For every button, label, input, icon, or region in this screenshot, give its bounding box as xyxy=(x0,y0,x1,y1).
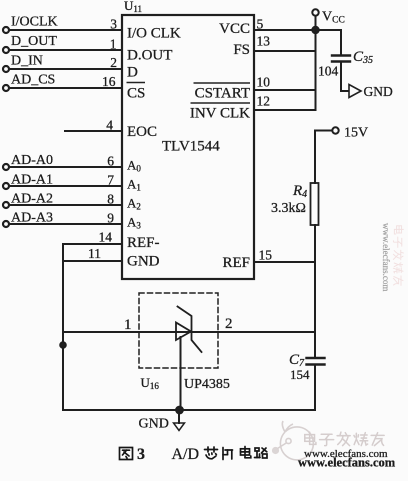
wire zener anode to ground rail xyxy=(180,337,182,410)
svg-text:EOC: EOC xyxy=(127,124,157,140)
capacitor C7 xyxy=(307,358,325,365)
svg-text:GND: GND xyxy=(127,254,160,270)
node 15V terminal xyxy=(332,127,338,133)
wire pin 14 REF- xyxy=(63,243,122,245)
ground arrow near C35 xyxy=(349,85,361,98)
svg-text:2: 2 xyxy=(225,316,233,332)
svg-text:D_IN: D_IN xyxy=(11,54,43,69)
svg-text:104: 104 xyxy=(318,64,339,79)
svg-text:CSTART: CSTART xyxy=(195,86,250,102)
wire C35 top lead xyxy=(340,30,342,55)
dashed box U16 xyxy=(139,293,218,368)
node I/OCLK terminal xyxy=(3,27,9,33)
svg-text:TLV1544: TLV1544 xyxy=(162,138,220,154)
wire R4 to REF node xyxy=(314,225,316,262)
wire C35 bottom lead xyxy=(341,62,349,91)
wire pin 15 REF xyxy=(254,261,315,263)
watermark right middle xyxy=(381,223,403,291)
svg-text:www.elecfans.com: www.elecfans.com xyxy=(298,456,396,470)
node ground junction xyxy=(176,407,183,414)
wire pin 11 GND xyxy=(63,260,122,262)
node AD-A3 terminal xyxy=(3,221,9,227)
svg-text:14: 14 xyxy=(99,230,113,245)
svg-text:1: 1 xyxy=(110,37,117,52)
wire 15V feed xyxy=(315,131,332,184)
svg-text:4: 4 xyxy=(106,118,113,133)
capacitor C35 xyxy=(332,56,350,62)
svg-text:AD-A3: AD-A3 xyxy=(11,210,53,225)
svg-text:9: 9 xyxy=(107,211,114,226)
svg-text:D.OUT: D.OUT xyxy=(127,48,172,64)
svg-text:FS: FS xyxy=(233,42,250,58)
wire pin 13 FS xyxy=(254,50,316,52)
svg-text:AD-A1: AD-A1 xyxy=(11,172,53,187)
svg-text:15V: 15V xyxy=(344,126,368,141)
node AD-A2 terminal xyxy=(3,202,9,208)
svg-text:12: 12 xyxy=(257,94,271,109)
watermark logo bottom right xyxy=(272,421,314,460)
wire shunt reference rail xyxy=(63,331,315,333)
watermark text bottom right xyxy=(305,432,384,446)
svg-text:INV CLK: INV CLK xyxy=(190,106,250,122)
svg-text:6: 6 xyxy=(107,154,114,169)
svg-text:REF: REF xyxy=(222,255,250,271)
node junction on left bus xyxy=(60,342,66,348)
node AD-A0 terminal xyxy=(3,164,9,170)
svg-text:VCC: VCC xyxy=(219,21,250,37)
wire pin 4 EOC xyxy=(65,130,122,132)
wire REF node down to C7 xyxy=(314,262,316,358)
svg-text:8: 8 xyxy=(107,192,114,207)
svg-text:13: 13 xyxy=(257,34,271,49)
svg-text:16: 16 xyxy=(102,74,116,89)
svg-text:I/O CLK: I/O CLK xyxy=(127,26,181,42)
node AD-A1 terminal xyxy=(3,183,9,189)
caption figure 3 A/D chip circuit xyxy=(120,447,268,460)
wire ground stem xyxy=(178,410,180,423)
svg-text:CS: CS xyxy=(127,86,145,102)
node D_IN terminal xyxy=(3,66,9,72)
wire pin 8 AD-A2 xyxy=(9,204,122,206)
wire left bus vertical xyxy=(62,244,64,410)
svg-text:1: 1 xyxy=(124,317,132,333)
svg-text:AD-A0: AD-A0 xyxy=(11,153,53,168)
svg-text:3: 3 xyxy=(110,17,117,32)
svg-text:REF-: REF- xyxy=(127,235,160,251)
svg-text:154: 154 xyxy=(290,367,310,382)
wire pin 6 AD-A0 xyxy=(9,166,122,168)
svg-text:D_OUT: D_OUT xyxy=(11,34,57,49)
svg-text:I/OCLK: I/OCLK xyxy=(11,15,58,30)
ground symbol triangle xyxy=(174,423,185,431)
svg-text:GND: GND xyxy=(364,84,393,99)
wire bottom ground rail xyxy=(63,409,315,411)
wire pin 9 AD-A3 xyxy=(9,223,122,225)
node AD_CS terminal xyxy=(3,85,9,91)
svg-text:GND: GND xyxy=(139,417,169,432)
svg-text:A/D: A/D xyxy=(172,446,200,463)
wire pin 10 CSTART xyxy=(254,89,316,91)
wire pin 7 AD-A1 xyxy=(9,185,122,187)
wire pin 2 D_IN xyxy=(9,68,122,70)
node D_OUT terminal xyxy=(3,47,9,53)
svg-text:AD-A2: AD-A2 xyxy=(11,191,53,206)
wire pin 12 INV CLK xyxy=(254,109,316,111)
svg-text:UP4385: UP4385 xyxy=(184,377,230,392)
wire pin 1 D_OUT xyxy=(9,49,122,51)
wire pin 3 I/OCLK xyxy=(9,29,122,31)
svg-text:D: D xyxy=(127,65,138,81)
node VCC junction xyxy=(312,27,318,33)
op-amp U11 TLV1544 IC body xyxy=(122,15,254,279)
svg-text:2: 2 xyxy=(110,55,117,70)
wire C7 bottom lead xyxy=(314,365,316,410)
svg-text:www.elecfans.com: www.elecfans.com xyxy=(381,223,391,291)
svg-text:3: 3 xyxy=(137,446,145,463)
wire pin 16 AD_CS xyxy=(9,87,122,89)
svg-text:10: 10 xyxy=(257,75,271,90)
wire Vcc stem xyxy=(315,16,317,30)
svg-text:15: 15 xyxy=(259,248,273,263)
diode U16 zener triangle xyxy=(176,323,191,341)
node Vcc terminal xyxy=(312,9,318,15)
svg-text:11: 11 xyxy=(88,246,101,261)
svg-text:7: 7 xyxy=(107,173,114,188)
svg-text:AD_CS: AD_CS xyxy=(11,73,55,88)
svg-text:3.3kΩ: 3.3kΩ xyxy=(271,201,306,216)
diode U16 zener cathode xyxy=(178,307,202,353)
wire pin 5 VCC xyxy=(254,29,341,31)
svg-text:5: 5 xyxy=(257,17,264,32)
wire right pull-up bus xyxy=(315,30,317,110)
resistor R4 xyxy=(311,183,319,225)
